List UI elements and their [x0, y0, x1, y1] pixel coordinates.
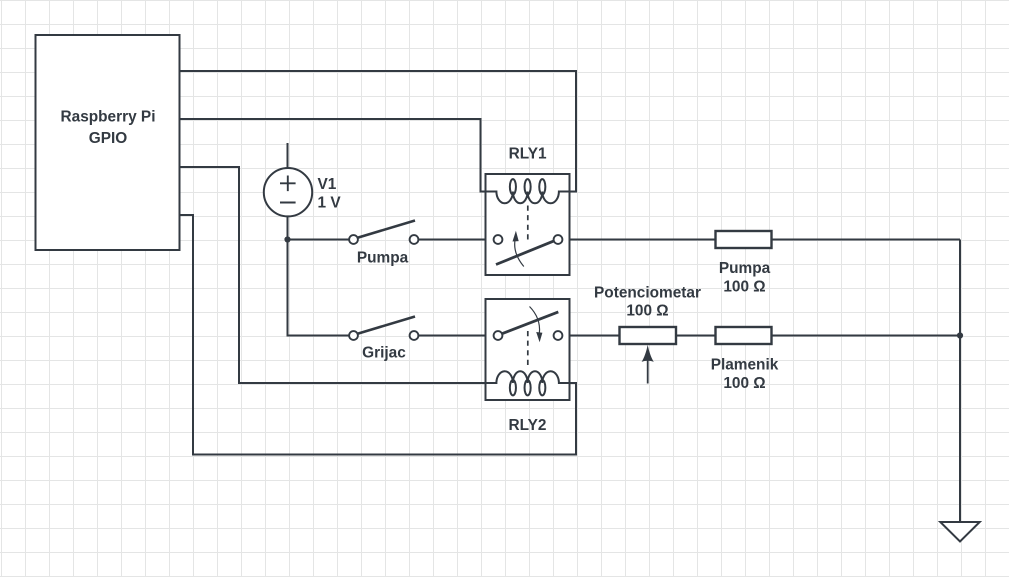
- wire node A down to switch Grijac row: [288, 240, 350, 336]
- wire switch Grijac to RLY2 left pin: [418, 335, 494, 337]
- switch Pumpa: [349, 221, 418, 244]
- wire net2: GPIO pin2 to RLY1 coil left terminal: [180, 119, 486, 192]
- svg-text:1 V: 1 V: [318, 194, 342, 211]
- voltage source V1: [264, 168, 312, 216]
- wire right rail down to ground: [959, 240, 961, 523]
- svg-text:100 Ω: 100 Ω: [723, 278, 765, 295]
- svg-text:RLY2: RLY2: [509, 417, 547, 434]
- wire net3: GPIO pin3 to RLY2 coil left terminal: [180, 167, 486, 383]
- resistor Plamenik 100: [716, 327, 772, 344]
- svg-text:Pumpa: Pumpa: [357, 249, 409, 266]
- svg-text:Grijac: Grijac: [362, 345, 406, 362]
- svg-text:Raspberry Pi: Raspberry Pi: [61, 109, 156, 126]
- Raspberry Pi GPIO block: [36, 35, 180, 250]
- svg-text:Pumpa: Pumpa: [719, 260, 771, 277]
- svg-text:Plamenik: Plamenik: [711, 357, 779, 374]
- potentiometer Potenciometar: [620, 327, 677, 384]
- wire resistor Pumpa to right rail: [772, 239, 961, 241]
- relay RLY2: [486, 299, 570, 400]
- wire V1 bottom to node A: [287, 216, 289, 240]
- svg-text:100 Ω: 100 Ω: [723, 375, 765, 392]
- node A junction dot: [284, 236, 290, 242]
- wire net4: GPIO pin4 to RLY2 coil right terminal: [180, 215, 577, 455]
- svg-text:GPIO: GPIO: [89, 130, 128, 147]
- svg-text:Potenciometar: Potenciometar: [594, 285, 701, 302]
- wire RLY1 right pin to resistor Pumpa: [562, 239, 715, 241]
- wire V1 top floating stub: [287, 143, 289, 169]
- wire switch Pumpa to RLY1 left pin: [418, 239, 494, 241]
- wire node A to switch Pumpa: [288, 239, 350, 241]
- ground: [940, 522, 979, 542]
- svg-text:100 Ω: 100 Ω: [626, 303, 668, 320]
- svg-text:V1: V1: [318, 176, 337, 193]
- wire RLY2 right pin to potentiometer: [562, 335, 619, 337]
- wire net1: GPIO pin1 to RLY1 coil right terminal: [180, 71, 577, 192]
- relay RLY1: [486, 174, 570, 275]
- wire resistor Plamenik to node B: [772, 335, 961, 337]
- switch Grijac: [349, 317, 418, 340]
- resistor Pumpa 100: [716, 231, 772, 248]
- wire potentiometer to resistor Plamenik: [676, 335, 716, 337]
- svg-text:RLY1: RLY1: [509, 146, 547, 163]
- node B junction dot: [957, 332, 963, 338]
